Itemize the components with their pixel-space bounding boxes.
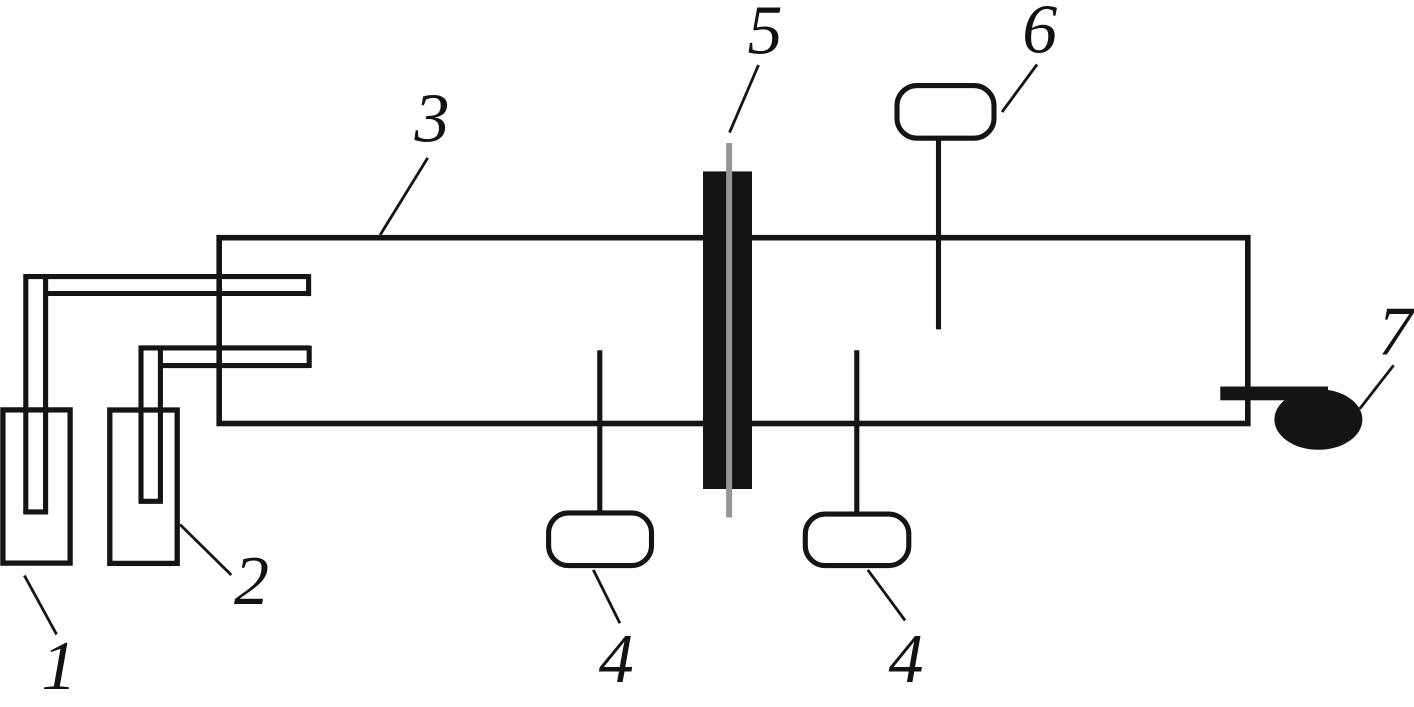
svg-text:7: 7 [1378, 294, 1414, 371]
membrane / filter 5 (thick black bar) [703, 171, 752, 489]
inlet tube 2 bottom wall [160, 363, 309, 368]
leader line 3 [380, 158, 428, 235]
inlet tube from vessel 1 (inner wall) [43, 277, 48, 513]
sensor bulb 6 (rounded rectangle) [897, 86, 994, 139]
gray fiber 5 (vertical gray line through bar) [726, 143, 732, 518]
reaction tube 3 (long horizontal rectangle) [219, 238, 1248, 424]
leader line 7 [1360, 365, 1394, 409]
leader line 4 right [868, 570, 905, 621]
inlet tube from vessel 1 (outer wall) [26, 277, 309, 513]
svg-text:3: 3 [414, 80, 450, 157]
inlet tube from vessel 2 (outer wall) [141, 348, 309, 501]
inlet tube 2 bottom cap [139, 499, 163, 504]
leader line 2 [180, 525, 231, 576]
inlet tube 1 bottom wall [46, 291, 309, 296]
connector line 4 right [854, 350, 859, 514]
svg-text:4: 4 [599, 621, 634, 698]
vessel 2 [110, 410, 177, 563]
leader line 5 [730, 65, 759, 133]
svg-text:5: 5 [748, 0, 783, 70]
inlet tube 1 bottom cap [23, 509, 48, 514]
svg-text:6: 6 [1022, 0, 1057, 68]
leader line 4 left [593, 570, 620, 623]
leader line 1 [24, 576, 56, 635]
sensor bulb 4 left (rounded rectangle) [549, 513, 652, 566]
inlet tube from vessel 2 (inner wall) [158, 348, 163, 501]
inlet tube 2 right end cap [307, 346, 312, 368]
sensor bulb 4 right (rounded rectangle) [805, 514, 909, 566]
svg-text:4: 4 [889, 621, 924, 698]
bulb 7 (black ellipse) [1274, 389, 1362, 450]
leader line 6 [1002, 65, 1037, 113]
connector line 4 left [597, 350, 602, 514]
vessel 1 [3, 410, 70, 563]
svg-text:2: 2 [234, 543, 269, 620]
connector line 6 [936, 138, 941, 329]
svg-text:1: 1 [42, 628, 77, 705]
outlet stub 7 [1220, 387, 1328, 401]
inlet tube 1 right end cap [306, 274, 311, 296]
